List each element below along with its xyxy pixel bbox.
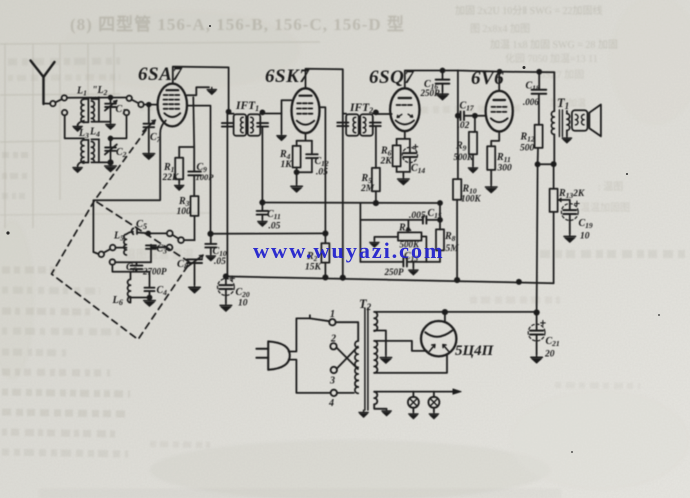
ground (L1)	[73, 124, 82, 131]
node junction	[473, 114, 477, 118]
svg-text:20: 20	[544, 350, 555, 360]
tube 6SQ7 internals	[396, 98, 414, 124]
ground (R6/C14)	[398, 176, 410, 185]
resistor R1	[175, 158, 183, 180]
ground (lamp2)	[429, 412, 438, 419]
svg-text:.02: .02	[458, 121, 470, 131]
capacitor C6	[131, 262, 143, 272]
node: switch terminal 1	[329, 319, 335, 325]
wire down to C21 junction	[537, 164, 538, 313]
wire terminal 4 to T2	[337, 392, 354, 394]
wire rail to 6V6 and T1	[458, 71, 554, 73]
node: osc band contact	[110, 245, 116, 251]
capacitor C11	[257, 203, 268, 220]
resistor R3	[191, 196, 199, 216]
node junction bus1 left	[208, 232, 212, 236]
coil L2	[91, 97, 110, 122]
transformer T2 heater winding	[374, 392, 377, 404]
svg-text:.05: .05	[269, 222, 281, 232]
svg-text:3: 3	[329, 376, 335, 387]
wire 6SA7 anode side down	[187, 106, 211, 234]
capacitor C7 (tuning, variable)	[143, 105, 155, 151]
node: selector terminal 3	[331, 367, 337, 373]
resistor R2	[321, 243, 329, 262]
svg-text:5M: 5M	[446, 244, 460, 254]
tube 6SA7 envelope	[158, 84, 187, 127]
ground (C13)	[412, 262, 414, 268]
coil L1	[78, 98, 89, 125]
wire stub	[93, 252, 98, 254]
node: switch contact lower-left	[62, 110, 67, 115]
svg-text:4: 4	[328, 398, 334, 409]
svg-text:2: 2	[330, 334, 336, 345]
svg-text:6V6: 6V6	[471, 68, 504, 89]
wire tap node line	[112, 262, 151, 272]
wire pot left to ground	[374, 237, 397, 240]
tube 6V6 envelope	[486, 91, 513, 132]
wire switch blade	[55, 99, 62, 102]
wire 6SQ7 plate rail	[405, 71, 458, 89]
svg-text:6SA7: 6SA7	[138, 64, 183, 85]
resistor R12	[535, 125, 543, 148]
node junction	[109, 137, 113, 141]
ghost table grid upper-left	[0, 42, 320, 228]
node junction	[323, 275, 327, 279]
wire R1 branch	[179, 146, 194, 148]
svg-text:.05: .05	[316, 168, 328, 178]
ground (L4/C2)	[105, 163, 117, 172]
resistor R5	[372, 168, 380, 191]
svg-text:300: 300	[497, 164, 513, 174]
capacitor C19 (electrolytic)	[561, 201, 579, 233]
node: switch contact	[62, 95, 67, 100]
wire 6SK7 cathode	[297, 133, 312, 141]
transformer T2 primary	[355, 341, 358, 393]
node junction IFT2 sec top	[374, 110, 378, 114]
ground (C21)	[531, 354, 543, 363]
wire detector line	[360, 261, 440, 263]
wire osc switch to R3 line	[184, 239, 194, 241]
transformer T2 core	[365, 308, 368, 410]
transformer T2 centre tap to ground	[374, 331, 386, 355]
node: selector terminal 2	[330, 343, 336, 349]
tube 6SK7 envelope	[292, 88, 320, 133]
svg-text:2M: 2M	[360, 184, 375, 194]
capacitor C4	[145, 272, 155, 298]
svg-text:6SK7: 6SK7	[265, 66, 310, 87]
potentiometer R7 slider arrow	[406, 227, 411, 231]
node junction	[438, 201, 442, 205]
capacitor C15	[423, 216, 427, 223]
wire blade	[104, 249, 111, 253]
ground (L3)	[73, 165, 82, 172]
capacitor C14 (electrolytic)	[402, 139, 417, 172]
wire contact to L5	[116, 247, 127, 249]
ground (R9)	[468, 166, 477, 173]
capacitor C21 (electrolytic)	[528, 313, 545, 355]
capacitor C5 (padder)	[132, 228, 149, 234]
ground (R1)	[175, 183, 184, 190]
wire bus1	[211, 232, 326, 234]
svg-text:: 温图: : 温图	[598, 181, 623, 193]
node: switch contact	[127, 96, 132, 101]
wire detector line up	[359, 203, 361, 262]
transformer T2 HV secondary upper	[374, 312, 377, 331]
svg-text:100: 100	[177, 207, 192, 217]
svg-text:5Ц4П: 5Ц4П	[455, 343, 495, 359]
node junction	[148, 296, 152, 300]
node junction	[374, 201, 378, 205]
wire IFT2 primary drop to bus2	[342, 112, 344, 277]
wire 6SA7 grid2 to ground	[187, 87, 209, 95]
wire HV lower bottom to rectifier	[374, 356, 447, 373]
wire screen dropper vertical	[192, 97, 195, 171]
svg-text:6SZ7 加固: 6SZ7 加固	[540, 69, 584, 81]
wire 6V6 cathode to R11	[491, 131, 499, 146]
node junction	[441, 69, 445, 73]
ground (grid return)	[277, 134, 286, 141]
svg-text:.006: .006	[523, 97, 539, 107]
svg-text:1K: 1K	[281, 160, 293, 170]
capacitor C17	[461, 111, 465, 120]
ground (T1 sec)	[562, 136, 571, 143]
node: switch contact lower-right	[124, 110, 129, 115]
bleed-through ghost printing from reverse page	[70, 4, 630, 261]
capacitor C1 (trimmer)	[105, 98, 117, 122]
switch arm	[310, 315, 329, 321]
wire IFT2 sec bottom to R5	[375, 127, 377, 168]
tube 6SQ7 envelope	[390, 88, 419, 131]
svg-text:10: 10	[580, 232, 590, 242]
wire R10 feed	[457, 116, 459, 179]
svg-text:10: 10	[238, 299, 248, 309]
wire 6V6 plate stem	[498, 72, 500, 91]
svg-text:化园 7050 加温=13 11: 化园 7050 加温=13 11	[505, 52, 598, 65]
wire tie	[538, 163, 554, 165]
wire cathode bottom	[297, 171, 312, 173]
resistor R11	[487, 146, 495, 170]
wire C15 left to volume pot slider	[360, 220, 422, 231]
ground (C1/L2)	[106, 122, 115, 129]
dashed gang-coupling line C7 to oscillator	[95, 130, 147, 201]
svg-text:www.wuyazi.com: www.wuyazi.com	[253, 238, 444, 263]
capacitor C13	[403, 257, 407, 266]
node junction	[438, 218, 442, 222]
wire grid lead to 6SA7	[144, 104, 158, 106]
wire 6SA7 osc grid down-left	[93, 121, 165, 253]
ground (heater)	[382, 409, 391, 416]
capacitor C8 (osc tuning, variable)	[186, 255, 203, 284]
coil L3	[78, 140, 89, 166]
capacitor C9	[188, 172, 201, 197]
resistor R13 (with slider)	[553, 164, 555, 189]
svg-text:15K: 15K	[305, 263, 322, 273]
node: osc switch contact	[178, 237, 184, 243]
node junction	[498, 70, 502, 74]
node junction	[552, 162, 556, 166]
wire grid line down to R8	[439, 203, 441, 229]
wire IFT2 sec top to 6SQ7 grid	[376, 113, 392, 115]
svg-text:250P: 250P	[420, 88, 441, 98]
node junction	[260, 200, 264, 204]
wire 6SK7 plate to IFT2	[306, 69, 343, 113]
mains plug	[256, 341, 289, 369]
ground (R7)	[370, 240, 379, 247]
wire plug bottom to terminal 4	[289, 360, 331, 393]
wire 6SQ7 cathode node	[397, 131, 410, 139]
ground (R4/C12)	[296, 172, 298, 183]
node: selector terminal 4	[331, 390, 337, 396]
node: osc tap contact	[110, 259, 116, 265]
node junction	[455, 278, 459, 282]
capacitor C16	[436, 71, 450, 92]
svg-text:2700P: 2700P	[142, 267, 167, 277]
coil L4	[91, 139, 110, 162]
wire heater line with arrow	[374, 391, 453, 393]
svg-text:1: 1	[330, 309, 335, 320]
svg-text:2K: 2K	[380, 157, 393, 167]
tube 6SA7 internals	[164, 90, 181, 117]
resistor R6	[393, 145, 401, 166]
node junction	[323, 231, 327, 235]
node junction	[536, 162, 540, 166]
node: osc switch contact	[167, 245, 173, 251]
tube 6SK7 internals	[297, 96, 315, 125]
ground (lamp1)	[409, 412, 418, 419]
capacitor C10	[205, 234, 216, 254]
transformer T1	[551, 72, 569, 164]
svg-text:22K: 22K	[162, 173, 180, 183]
svg-text:图 2x8x4 加图: 图 2x8x4 加图	[470, 23, 530, 35]
wire selector cross	[337, 347, 358, 369]
wire antenna to band switch	[44, 103, 50, 105]
capacitor C18	[532, 72, 547, 125]
transformer IFT2	[337, 114, 380, 136]
wire C17 to 6V6 grid	[458, 115, 486, 117]
wire band2 right	[111, 115, 127, 138]
wire IFT1 sec bottom down	[261, 127, 263, 203]
capacitor C20 (electrolytic)	[218, 276, 235, 303]
ground (C16)	[437, 91, 449, 100]
node junction C7 tap	[147, 103, 151, 107]
antenna	[31, 61, 55, 105]
speaker	[572, 105, 601, 137]
node: osc switch contact	[167, 231, 173, 237]
ground (T2 core)	[359, 410, 368, 417]
ground (T2 CT)	[380, 355, 392, 364]
node junction	[146, 232, 150, 236]
dashed oscillator shield box (diamond)	[52, 201, 191, 340]
wire bus2 (B+ bus)	[226, 276, 554, 283]
node junction	[295, 170, 299, 174]
node junction	[537, 70, 541, 74]
wire top tank rail	[67, 97, 127, 99]
ground (C7)	[143, 151, 155, 160]
capacitor C2 (trimmer)	[105, 138, 117, 162]
wire terminal1 to T2 top	[336, 322, 359, 341]
svg-text:100K: 100K	[461, 194, 482, 204]
node junction	[224, 274, 228, 278]
rectifier internals	[425, 331, 452, 337]
node junction	[109, 96, 113, 100]
node junction IFT1 right top	[260, 110, 264, 114]
resistor R8	[436, 229, 444, 250]
wire grid return	[281, 114, 283, 134]
rectifier tube 5Ts4P envelope	[421, 321, 456, 356]
potentiometer R7 body	[398, 232, 422, 240]
wire 6SK7 screen down to R2	[320, 107, 326, 243]
svg-text:6SQ7: 6SQ7	[369, 67, 415, 88]
svg-text:加温 1x8 加固 SWG = 28 加固: 加温 1x8 加固 SWG = 28 加固	[490, 39, 618, 51]
wire rectifier plate stem	[444, 312, 446, 321]
svg-text:100P: 100P	[196, 172, 215, 182]
ground (6SA7 g2)	[207, 87, 216, 94]
coil L5	[124, 234, 127, 255]
wire to osc switch	[148, 232, 166, 234]
node junction	[341, 276, 345, 280]
wire 6SA7 plate to top rail to IFT1	[173, 67, 229, 112]
resistor R9	[473, 116, 475, 132]
svg-text:(8) 四型管 156-A, 156-B, 156-C, 1: (8) 四型管 156-A, 156-B, 156-C, 156-D 型	[70, 14, 405, 34]
node: osc band contact	[99, 252, 105, 258]
ground (C10)	[206, 254, 215, 261]
wire HV lower top to rectifier heater pin	[374, 341, 427, 351]
svg-text:500: 500	[520, 144, 535, 154]
svg-text:250P: 250P	[384, 267, 405, 277]
capacitor C12	[306, 141, 318, 172]
node junction	[443, 310, 447, 314]
tube 6V6 internals	[491, 100, 508, 122]
ground (C19)	[564, 234, 576, 243]
ground (C8)	[189, 284, 201, 293]
wire heater winding bottom	[374, 404, 386, 409]
svg-text:加固 2x2U 10分Ⅱ SWG = 22加固线: 加固 2x2U 10分Ⅱ SWG = 22加固线	[455, 4, 603, 17]
wire osc bottom	[131, 297, 150, 299]
transformer IFT1	[222, 114, 268, 136]
wire C15 right to grid line	[427, 219, 440, 221]
wire HT top to rectifier plate and C21	[374, 311, 536, 313]
ground (C11)	[258, 219, 267, 226]
node: switch contact	[50, 101, 55, 106]
node junction	[227, 110, 231, 114]
pilot lamp 2	[428, 392, 439, 412]
wire C17 drop	[457, 71, 459, 116]
svg-text:.05: .05	[214, 257, 226, 267]
capacitor C3	[146, 245, 167, 262]
wire cathode bottom	[397, 172, 410, 176]
ground (C20)	[220, 303, 232, 312]
svg-text:500K: 500K	[454, 152, 475, 162]
wire plug top to switch	[289, 318, 310, 351]
svg-text:.005: .005	[409, 211, 426, 221]
resistor R10	[453, 179, 461, 200]
node junction	[534, 310, 538, 314]
resistor R4	[293, 146, 301, 168]
wire band2 left	[65, 115, 84, 138]
pilot lamp 1	[408, 392, 419, 412]
wire IFT1 sec top to 6SK7 grid	[262, 100, 291, 113]
transformer T2 HV secondary lower	[374, 341, 377, 373]
ground (osc)	[144, 298, 156, 307]
node junction	[456, 114, 460, 118]
wire pot right down	[422, 237, 427, 262]
svg-text:温温加固图: 温温加固图	[580, 202, 630, 214]
wire IFT1 B+ drop to bus2	[226, 112, 228, 277]
node: switch contact	[138, 102, 143, 107]
node junction	[517, 280, 521, 284]
ground (R11)	[485, 184, 497, 193]
coil L6	[128, 272, 131, 303]
wire AVC line	[262, 202, 440, 205]
wire blade	[172, 235, 178, 239]
wire switch blade	[132, 100, 139, 104]
node junction	[108, 160, 112, 164]
